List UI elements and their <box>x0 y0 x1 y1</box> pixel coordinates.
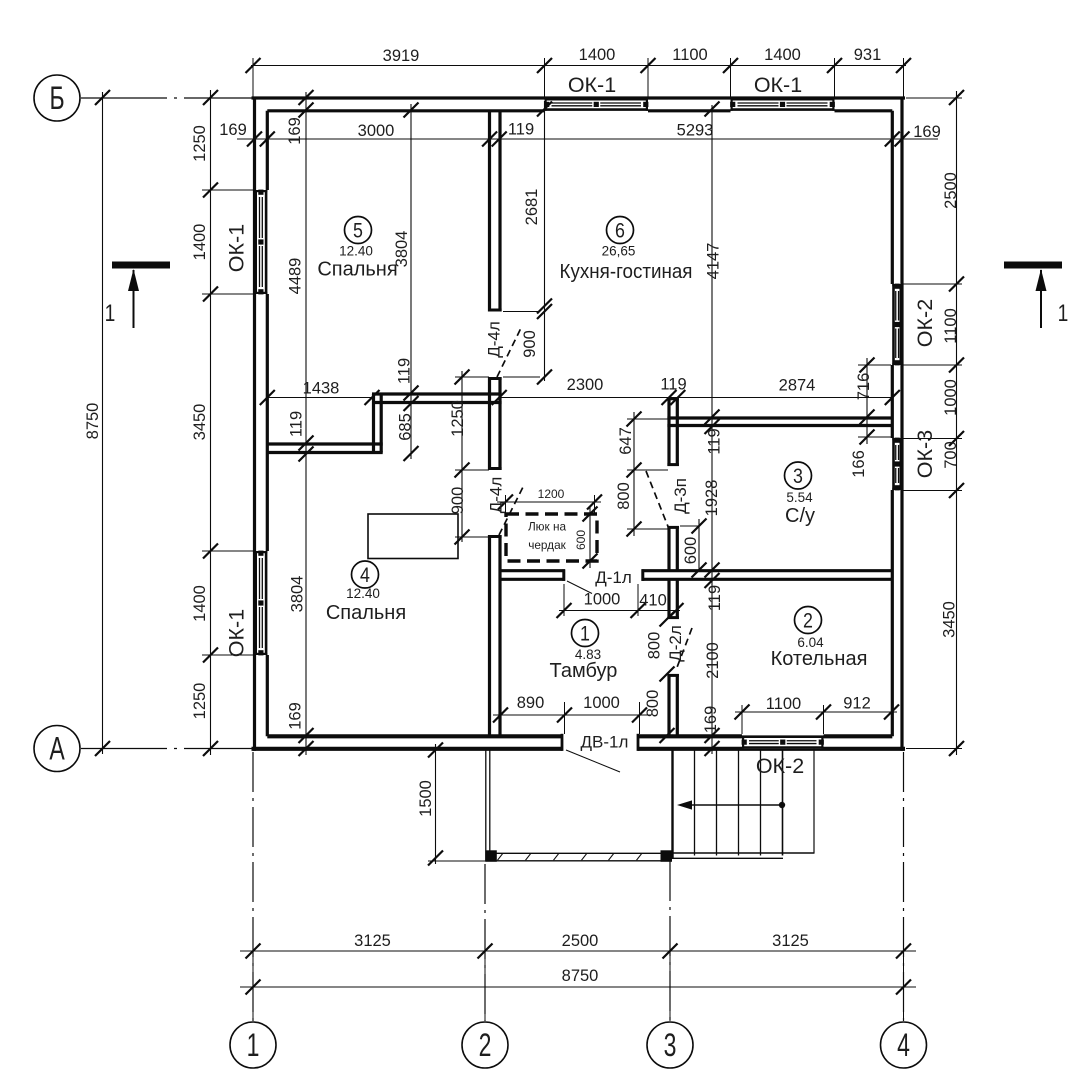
svg-text:600: 600 <box>682 537 700 565</box>
label OK-1 left lower <box>225 609 249 657</box>
svg-text:169: 169 <box>286 117 304 145</box>
svg-text:1100: 1100 <box>672 46 707 64</box>
wall: right exterior <box>892 97 902 751</box>
dimension line x411 (3804/119/685) <box>393 103 419 462</box>
svg-text:119: 119 <box>287 411 305 437</box>
svg-text:2: 2 <box>803 609 813 633</box>
label D-4l lower door <box>486 477 505 514</box>
svg-text:1000: 1000 <box>584 590 621 608</box>
door leaf D-2l <box>676 628 692 670</box>
label OK-3 right <box>913 430 937 478</box>
svg-text:1200: 1200 <box>538 487 565 501</box>
svg-text:800: 800 <box>645 632 663 660</box>
svg-text:1100: 1100 <box>942 308 960 343</box>
svg-text:2874: 2874 <box>779 376 816 394</box>
porch edge tick marks <box>498 854 642 860</box>
svg-text:685: 685 <box>396 413 414 441</box>
svg-text:119: 119 <box>706 585 724 611</box>
svg-text:8750: 8750 <box>562 967 599 985</box>
svg-text:12.40: 12.40 <box>346 586 380 601</box>
label D-2l door <box>666 625 685 662</box>
dimension 600 attic hatch <box>574 507 597 569</box>
axis circle 4 <box>881 1022 927 1068</box>
svg-text:ОК-1: ОК-1 <box>225 224 249 272</box>
svg-text:169: 169 <box>286 702 304 730</box>
wall: tambour right wall mid segment <box>667 579 679 619</box>
svg-text:ОК-1: ОК-1 <box>568 73 616 97</box>
wall: left exterior <box>255 97 268 751</box>
svg-text:ДВ-1л: ДВ-1л <box>581 732 629 751</box>
wall: bedroom4 top wall <box>267 444 382 453</box>
svg-text:Тамбур: Тамбур <box>550 660 618 682</box>
svg-text:Кухня-гостиная: Кухня-гостиная <box>560 260 693 283</box>
axis line 4 vertical <box>903 752 905 1021</box>
svg-text:119: 119 <box>395 358 413 384</box>
window OK-1 top left <box>544 98 648 111</box>
svg-text:800: 800 <box>644 690 662 718</box>
porch outline <box>486 751 671 862</box>
dimension 800 lower <box>644 690 662 718</box>
door leaf D-4l lower <box>499 487 523 535</box>
dimension line 8750 left <box>84 90 110 756</box>
window OK-1 left lower <box>255 551 268 656</box>
svg-text:119: 119 <box>705 428 723 454</box>
dimension line x462 (1250/900) <box>449 370 489 545</box>
dimension texts row 1 <box>383 46 882 65</box>
axis circle A (left bottom) <box>34 726 80 772</box>
attic hatch text <box>528 520 567 553</box>
stairs <box>672 749 815 859</box>
window OK-2 bottom <box>742 736 824 749</box>
dimension 1200 attic hatch <box>497 487 602 513</box>
dimension row 1 line (top) <box>246 58 912 98</box>
wall: bedroom5 lower jog horizontal <box>372 393 502 405</box>
attic hatch box (Luk na cherdak) <box>506 514 597 561</box>
dimension line x634 (647/800) <box>615 412 668 537</box>
svg-text:3125: 3125 <box>772 932 809 950</box>
svg-text:1250: 1250 <box>191 125 209 162</box>
label OK-2 bottom <box>756 754 804 778</box>
stairs direction arrow <box>677 800 785 809</box>
svg-text:Д-1л: Д-1л <box>595 568 632 587</box>
svg-text:2500: 2500 <box>942 172 960 209</box>
svg-text:5.54: 5.54 <box>786 490 813 505</box>
svg-text:1100: 1100 <box>766 695 801 713</box>
svg-text:119: 119 <box>660 375 686 393</box>
window OK-1 top right <box>730 98 835 111</box>
svg-text:1: 1 <box>105 299 116 327</box>
wall: bathroom top wall <box>667 418 892 426</box>
dimension 1500 porch <box>417 743 486 866</box>
svg-text:ОК-2: ОК-2 <box>756 754 804 778</box>
svg-text:4: 4 <box>360 564 370 588</box>
wall: tambour right wall upper segment <box>667 398 679 466</box>
dimension 890/1000 (door DV-1l) <box>493 694 651 734</box>
label DV-1l with leader <box>566 732 628 772</box>
svg-text:4489: 4489 <box>286 258 304 295</box>
svg-text:2: 2 <box>479 1028 492 1064</box>
axis circle 3 <box>647 1022 693 1068</box>
room label 5 bedroom <box>317 217 397 281</box>
svg-text:410: 410 <box>639 591 667 609</box>
dimension 800 door D-2l <box>645 632 663 660</box>
svg-text:чердак: чердак <box>528 538 566 552</box>
dimension row 3125/2500/3125 <box>240 932 916 1021</box>
dimension line x306 (169/4489/119/3804/169) <box>286 90 314 756</box>
svg-text:Д-4л: Д-4л <box>486 477 505 514</box>
dimension 1100/912 (bottom window) <box>735 694 900 734</box>
door leaf D-4l upper <box>497 328 521 377</box>
wall: bottom exterior <box>252 734 906 751</box>
svg-text:Люк на: Люк на <box>528 520 567 534</box>
svg-text:2500: 2500 <box>562 932 599 950</box>
axis line 3 vertical <box>669 861 671 1021</box>
svg-text:119: 119 <box>508 120 534 138</box>
svg-text:Спальня: Спальня <box>317 259 397 281</box>
room label 2 boiler room <box>771 607 868 671</box>
svg-text:1: 1 <box>247 1028 260 1064</box>
svg-text:169: 169 <box>219 121 247 139</box>
svg-text:Котельная: Котельная <box>771 648 868 670</box>
svg-text:Б: Б <box>49 81 64 117</box>
dimension texts row 2 <box>219 120 941 141</box>
axis line A horizontal <box>81 748 252 750</box>
svg-text:4: 4 <box>897 1028 910 1064</box>
svg-text:3450: 3450 <box>191 404 209 441</box>
wall: jog vertical connector <box>374 394 382 453</box>
porch corner post left <box>485 850 497 862</box>
svg-text:716: 716 <box>855 373 873 401</box>
axis circle 2 <box>462 1022 508 1068</box>
axis circle B (left top) <box>34 75 80 121</box>
svg-text:1400: 1400 <box>191 585 209 622</box>
room label 6 kitchen-living <box>560 217 693 284</box>
svg-text:1400: 1400 <box>579 46 616 64</box>
svg-text:890: 890 <box>517 694 545 712</box>
svg-text:3125: 3125 <box>354 932 391 950</box>
svg-text:1400: 1400 <box>764 46 801 64</box>
svg-text:600: 600 <box>574 530 588 550</box>
room label 4 bedroom <box>326 561 406 624</box>
axis circle 1 <box>230 1022 276 1068</box>
svg-text:1250: 1250 <box>449 400 467 437</box>
porch corner post right <box>661 850 673 862</box>
svg-text:1928: 1928 <box>703 480 721 517</box>
dimension line x699 (600) <box>680 519 707 578</box>
label OK-2 right <box>913 299 937 347</box>
svg-text:ОК-3: ОК-3 <box>913 430 937 478</box>
svg-text:Д-4л: Д-4л <box>484 321 503 358</box>
dimension row 1438/2300/119/2874 <box>260 375 900 405</box>
window OK-3 right <box>892 438 902 491</box>
wall: bathroom/boiler bottom wall <box>642 569 893 581</box>
section marker left <box>105 262 170 329</box>
svg-text:3: 3 <box>793 465 803 489</box>
svg-text:26,65: 26,65 <box>602 244 636 259</box>
dimension line left window column <box>191 90 255 756</box>
wall: top exterior <box>252 98 906 111</box>
axis line 2 vertical <box>484 864 486 1021</box>
dimension line x867 (716/166) <box>850 358 891 478</box>
svg-text:3: 3 <box>664 1028 677 1064</box>
room label 3 bathroom <box>785 462 816 527</box>
svg-text:ОК-1: ОК-1 <box>225 609 249 657</box>
svg-text:ОК-1: ОК-1 <box>754 73 802 97</box>
svg-text:912: 912 <box>843 694 871 712</box>
wall: tambour right wall lower segment <box>667 674 679 736</box>
svg-text:169: 169 <box>913 123 941 141</box>
svg-text:3919: 3919 <box>383 47 420 65</box>
svg-text:800: 800 <box>615 482 633 510</box>
label D-1l with leader <box>567 568 632 594</box>
label OK-1 top left <box>568 73 616 97</box>
svg-text:1250: 1250 <box>191 683 209 720</box>
svg-text:Спальня: Спальня <box>326 602 406 624</box>
svg-text:1000: 1000 <box>942 379 960 416</box>
dimension row 8750 bottom <box>240 967 916 995</box>
wall: tambour top wall segment <box>500 569 565 581</box>
dimension line right column <box>903 90 964 756</box>
svg-text:3000: 3000 <box>358 122 395 140</box>
svg-text:2681: 2681 <box>523 189 541 226</box>
svg-text:166: 166 <box>850 450 868 478</box>
svg-text:700: 700 <box>942 441 960 469</box>
section marker right <box>1004 262 1068 329</box>
svg-text:4147: 4147 <box>704 243 722 280</box>
label D-3p door <box>671 478 690 514</box>
svg-text:3450: 3450 <box>940 601 958 638</box>
svg-text:1000: 1000 <box>583 694 620 712</box>
furniture rectangle bedroom 4 <box>368 514 458 559</box>
svg-text:1438: 1438 <box>303 379 340 397</box>
svg-text:900: 900 <box>521 330 539 358</box>
svg-text:3804: 3804 <box>288 576 306 613</box>
window OK-1 left upper <box>255 190 268 295</box>
svg-text:ОК-2: ОК-2 <box>913 299 937 347</box>
wall: tambour right wall between doors <box>667 526 679 571</box>
svg-text:1: 1 <box>580 622 590 646</box>
svg-text:А: А <box>49 731 65 767</box>
svg-text:1500: 1500 <box>417 780 435 817</box>
label OK-1 left upper <box>225 224 249 272</box>
dimension 1000/410 (door D-1l) <box>557 584 684 618</box>
svg-text:647: 647 <box>617 427 635 455</box>
svg-text:6: 6 <box>615 219 625 243</box>
svg-text:2300: 2300 <box>567 376 604 394</box>
dimension line x667 (800/800) <box>660 607 675 744</box>
svg-text:2100: 2100 <box>704 642 722 679</box>
svg-text:900: 900 <box>449 487 467 515</box>
svg-text:Д-2л: Д-2л <box>666 625 685 662</box>
axis line 1 vertical <box>252 752 254 1021</box>
svg-text:931: 931 <box>854 46 882 64</box>
label OK-1 top right <box>754 73 802 97</box>
svg-text:1400: 1400 <box>191 224 209 261</box>
label D-4l upper door <box>484 321 503 358</box>
svg-text:Д-3п: Д-3п <box>671 478 690 514</box>
axis line B horizontal <box>81 97 252 99</box>
wall: partition bedroom5/kitchen upper segment <box>488 111 502 312</box>
svg-text:5: 5 <box>353 219 363 243</box>
svg-text:1: 1 <box>1058 299 1069 327</box>
svg-text:8750: 8750 <box>84 403 102 440</box>
room label 1 tambour <box>550 620 618 683</box>
dimension row 2 line <box>237 132 938 147</box>
wall: tambour left wall <box>488 535 502 736</box>
dimension line x544 (2681/900) <box>503 101 552 385</box>
wall: partition jamb between doors D-4l <box>488 377 502 470</box>
door leaf D-3p <box>646 471 669 529</box>
svg-text:5293: 5293 <box>677 121 714 139</box>
svg-text:12.40: 12.40 <box>339 244 373 259</box>
svg-text:169: 169 <box>702 706 720 734</box>
window OK-2 right <box>892 284 902 366</box>
svg-text:С/у: С/у <box>785 505 815 527</box>
dimension line x712 (4147/119/1928/119/2100/169) <box>702 102 724 757</box>
